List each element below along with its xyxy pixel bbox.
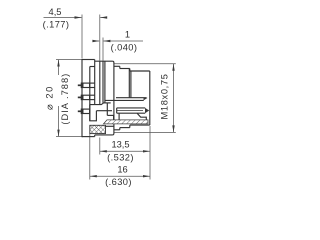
barrel wall hatch strip bbox=[104, 120, 149, 124]
insulator lower block outline bbox=[90, 105, 97, 121]
dia20 bottom extension line bbox=[56, 136, 82, 138]
socket contact row 3 bottom edge bbox=[117, 112, 146, 114]
axial contact tip bbox=[144, 98, 148, 101]
dimension 4,5 right arrow body line bbox=[100, 17, 107, 19]
svg-text:(.630): (.630) bbox=[105, 177, 132, 187]
insulator cap top edge bbox=[90, 66, 95, 68]
svg-text:(.040): (.040) bbox=[111, 43, 138, 53]
insulator front face bbox=[89, 67, 91, 121]
barrel shoulder edge vertical 1 bbox=[128, 69, 130, 98]
arrow 16 right bbox=[143, 175, 150, 177]
axial contact top edge on centerline bbox=[116, 97, 147, 99]
arrow M18 down bbox=[172, 125, 174, 132]
svg-text:⌀ 20: ⌀ 20 bbox=[45, 85, 55, 110]
arrow M18 up bbox=[172, 64, 174, 71]
M18 dimension line bbox=[173, 64, 175, 133]
dimension 1 left arrow body line bbox=[93, 40, 100, 42]
thread step vertical top 1 bbox=[119, 66, 121, 68]
arrow 13,5 left bbox=[100, 150, 107, 152]
barrel pilot line bottom bbox=[130, 124, 150, 126]
thread root line top bbox=[114, 65, 120, 67]
arrow dia20 up bbox=[57, 60, 59, 67]
bore tip slant profile bbox=[137, 113, 146, 120]
flange back disc line upper bbox=[94, 60, 96, 105]
svg-text:4,5: 4,5 bbox=[49, 7, 62, 17]
thread step vertical bottom 1 bbox=[119, 128, 121, 130]
arrow 1 right bbox=[103, 40, 110, 42]
svg-text:M18x0,75: M18x0,75 bbox=[160, 73, 170, 119]
bore step vertical at contact base bbox=[118, 113, 120, 120]
socket contact row 3 mid slot line bbox=[117, 110, 143, 112]
insulator plateau line under axial contact bbox=[104, 102, 111, 104]
extension line 16 left bbox=[89, 134, 91, 180]
housing front vertical upper bbox=[102, 61, 104, 103]
barrel end face bbox=[149, 71, 151, 125]
axial contact bottom edge bbox=[105, 99, 144, 101]
pin 3 solder cup bbox=[81, 109, 89, 113]
flange bottom face bbox=[82, 136, 95, 138]
extension line 13,5 left bbox=[99, 138, 101, 155]
step bottom edge bbox=[95, 134, 113, 136]
M18 bottom extension line (thread crest bottom) bbox=[114, 131, 176, 133]
socket contact row 3 top edge bbox=[117, 107, 146, 109]
extension line housing front face bbox=[102, 38, 104, 61]
extension line flange front face bbox=[81, 15, 83, 59]
svg-text:13,5: 13,5 bbox=[111, 139, 129, 149]
svg-text:1: 1 bbox=[125, 30, 130, 40]
socket contact row 3 left end bbox=[116, 108, 118, 113]
arrow 1 left bbox=[92, 40, 99, 42]
step top edge bbox=[95, 60, 113, 62]
housing inner vertical upper bbox=[104, 61, 106, 103]
dimension line 16 bbox=[90, 175, 150, 177]
flange back face vertical upper bbox=[99, 61, 101, 104]
arrow dia20 down bbox=[57, 130, 59, 137]
barrel pilot line top bbox=[130, 70, 150, 72]
thread step vertical bottom 2 bbox=[129, 125, 131, 128]
dia20 dimension line lower segment bbox=[58, 106, 60, 136]
arrow 16 left bbox=[90, 175, 97, 177]
svg-text:16: 16 bbox=[117, 165, 127, 175]
housing back face with rounded corners bbox=[112, 61, 114, 135]
arrow 4,5 right bbox=[100, 16, 107, 18]
barrel shoulder edge vertical 2 bbox=[130, 71, 132, 98]
dimension 4,5 shelf line bbox=[44, 17, 82, 19]
extension line flange back face bbox=[99, 15, 101, 61]
dimension line 13,5 bbox=[100, 150, 150, 152]
dia20 dimension line upper segment bbox=[58, 60, 60, 75]
insulator pocket step vertical bbox=[106, 103, 108, 115]
insulator pocket floor line bbox=[96, 110, 112, 112]
arrow 4,5 left bbox=[75, 16, 82, 18]
dimension 1 shelf line bbox=[104, 40, 144, 42]
dia20 top extension line bbox=[56, 59, 82, 61]
svg-text:(.177): (.177) bbox=[43, 20, 70, 30]
insulator pocket bottom edge bbox=[107, 114, 113, 116]
thread root line bottom bbox=[114, 129, 120, 131]
arrow 13,5 right bbox=[143, 150, 150, 152]
flange back disc line lower stub bbox=[94, 135, 96, 137]
pin 1 solder cup bbox=[81, 83, 89, 87]
flange top face bbox=[82, 59, 95, 61]
M18 top extension line (thread crest top) bbox=[114, 63, 176, 65]
socket contact row 3 solid tip bbox=[145, 108, 149, 113]
barrel step line bottom bbox=[120, 127, 130, 129]
insulator pocket outer vertical bbox=[113, 115, 115, 120]
pin 2 solder cup bbox=[81, 95, 89, 99]
svg-text:(.532): (.532) bbox=[107, 152, 134, 162]
insulator section step outline bbox=[90, 103, 104, 105]
flange front face bbox=[81, 59, 83, 137]
gasket cross-hatched block bbox=[90, 125, 106, 133]
barrel step line top bbox=[120, 68, 130, 70]
svg-text:(DIA .788): (DIA .788) bbox=[60, 73, 70, 125]
thread step vertical top 2 bbox=[129, 69, 131, 72]
gasket side line bbox=[106, 125, 114, 127]
extension line right at barrel end bbox=[149, 126, 151, 180]
